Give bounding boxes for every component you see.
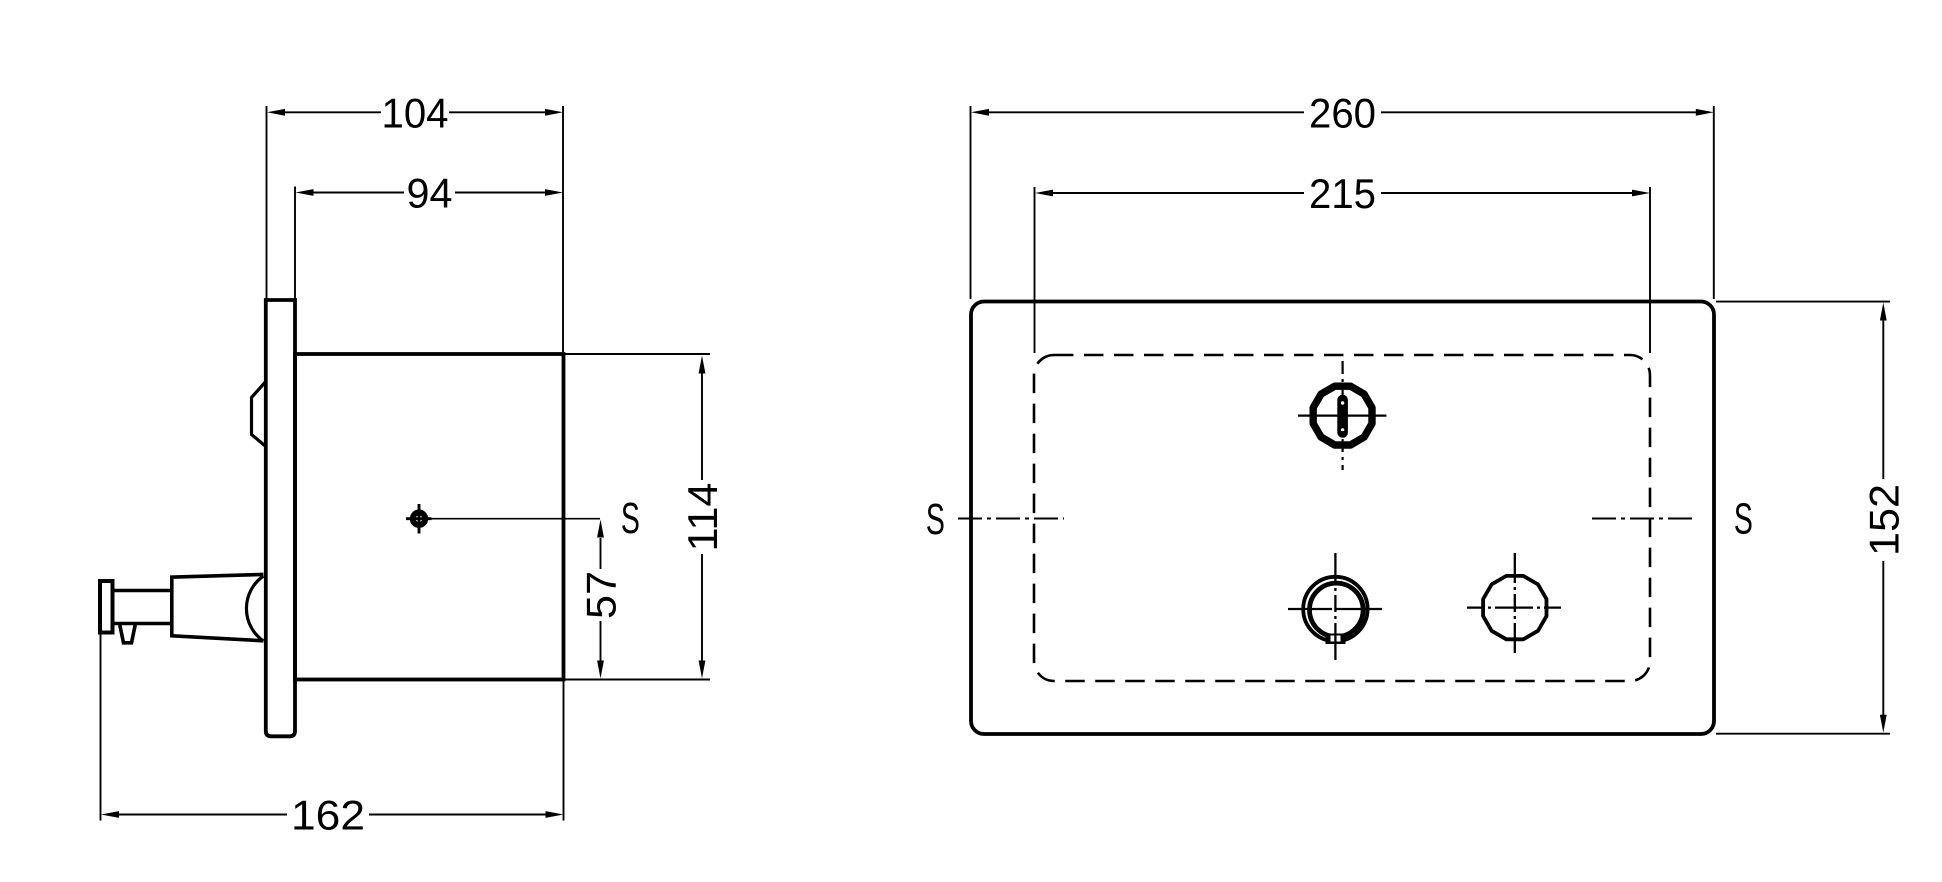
svg-text:260: 260	[1309, 89, 1376, 136]
svg-text:94: 94	[407, 170, 453, 217]
svg-text:S: S	[621, 494, 640, 543]
outlet notch	[1326, 634, 1346, 645]
inner recess dashed outline	[1034, 355, 1650, 681]
svg-text:152: 152	[1860, 484, 1907, 556]
outer housing box	[971, 302, 1714, 735]
flange bump (clip detail)	[252, 382, 266, 447]
svg-text:114: 114	[679, 483, 726, 552]
outlet crosshair	[1288, 553, 1382, 660]
center target marker (phi)	[406, 504, 600, 534]
svg-text:S: S	[926, 495, 945, 544]
dispenser body box	[295, 354, 564, 680]
button crosshair	[1467, 553, 1561, 660]
leader line to S	[430, 518, 600, 520]
svg-text:104: 104	[382, 89, 449, 136]
svg-text:215: 215	[1309, 170, 1376, 217]
pump end cap	[100, 581, 113, 633]
dimension 162	[101, 633, 564, 821]
svg-text:57: 57	[578, 571, 625, 619]
pump spout	[120, 625, 135, 643]
dimension 104	[267, 106, 564, 352]
SIDE VIEW (left)	[100, 300, 564, 736]
svg-text:S: S	[1734, 495, 1753, 544]
dimension 114	[565, 354, 710, 680]
pump pipe bottom line	[114, 622, 172, 626]
pump cone body	[170, 574, 263, 640]
dimension 94	[295, 187, 546, 300]
pump cylinder arc	[246, 576, 263, 641]
keyhole crosshair	[1298, 361, 1386, 470]
soap outlet double circle	[1303, 577, 1367, 641]
push button circle	[1483, 576, 1546, 639]
dimension 215	[1035, 187, 1651, 353]
dimension 57	[600, 538, 602, 661]
wall flange plate	[266, 300, 295, 736]
lock keyhole ring	[1313, 386, 1372, 445]
keyhole slot	[1337, 395, 1348, 438]
dimension 260	[971, 106, 1714, 299]
svg-text:162: 162	[291, 792, 365, 839]
pump pipe top line	[114, 589, 172, 593]
dimension 152	[1716, 302, 1890, 734]
